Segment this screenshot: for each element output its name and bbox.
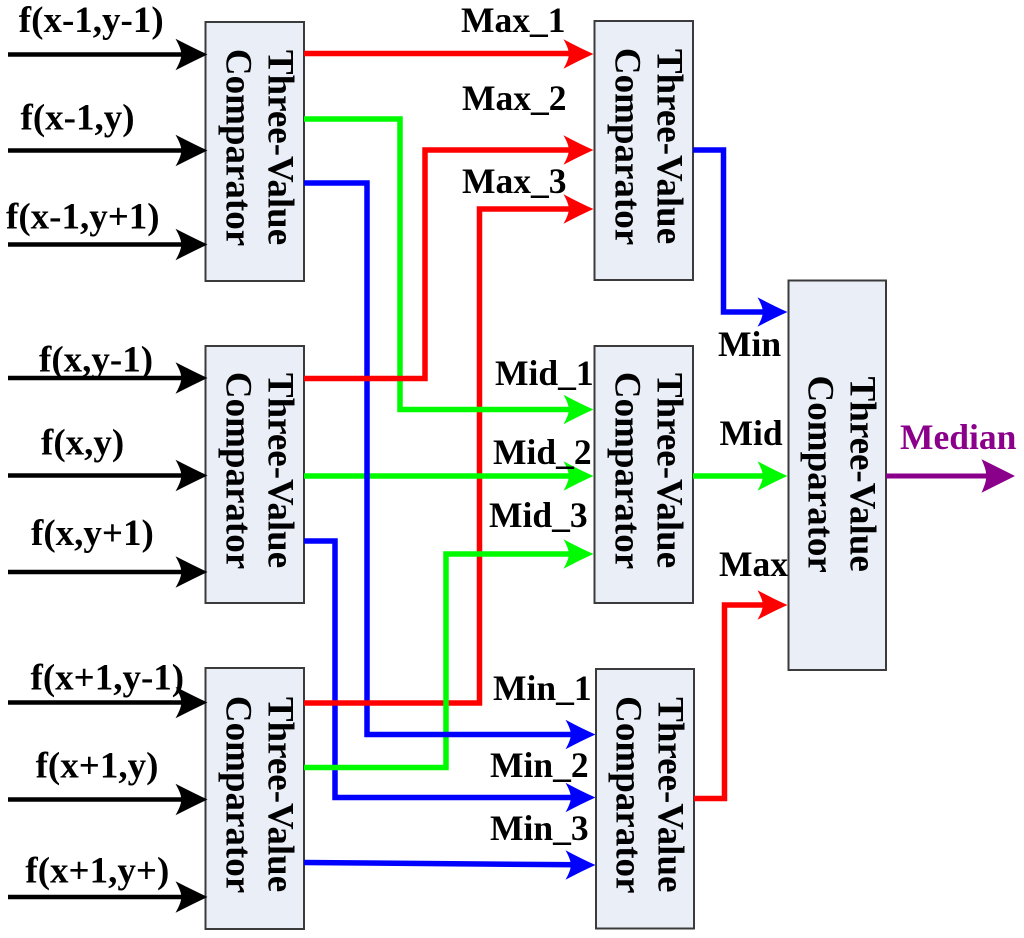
- svg-text:f(x+1,y-1): f(x+1,y-1): [31, 658, 185, 699]
- comparator U5 (center-middle Three-Value Comparator, mid stage): [595, 346, 694, 603]
- wire Mid_1 (green, U1 out2 to U5 in1): [304, 119, 594, 424]
- svg-text:Three-ValueComparator: Three-ValueComparator: [217, 372, 300, 569]
- comparator U6 (bottom-middle Three-Value Comparator, min stage): [596, 669, 694, 929]
- svg-text:Min: Min: [718, 324, 781, 364]
- svg-text:f(x,y): f(x,y): [41, 423, 124, 464]
- wire Min (blue, U4 out to U7 in1): [693, 150, 788, 327]
- svg-text:f(x-1,y+1): f(x-1,y+1): [6, 197, 160, 238]
- comparator U2 (middle-left Three-Value Comparator): [206, 346, 305, 603]
- svg-text:f(x-1,y-1): f(x-1,y-1): [19, 0, 164, 41]
- svg-text:Min_1: Min_1: [493, 668, 592, 708]
- comparator U4 (top-middle Three-Value Comparator, max stage): [595, 21, 694, 280]
- input arrow f(x-1,y-1): [8, 39, 208, 71]
- svg-text:Max_1: Max_1: [461, 0, 566, 40]
- wire Min_1 (blue, U1 out3): exit segment and vertical drop: [304, 183, 367, 737]
- svg-text:Max_2: Max_2: [462, 78, 567, 118]
- svg-text:Mid_2: Mid_2: [493, 432, 592, 472]
- svg-text:Three-ValueComparator: Three-ValueComparator: [606, 48, 689, 245]
- svg-text:Three-ValueComparator: Three-ValueComparator: [800, 376, 883, 573]
- svg-text:f(x+1,y+): f(x+1,y+): [25, 851, 169, 892]
- comparator U7 (output Three-Value Comparator): [789, 281, 887, 671]
- svg-text:Mid: Mid: [720, 413, 783, 453]
- svg-text:Mid_3: Mid_3: [489, 495, 588, 535]
- input arrow f(x,y): [8, 460, 208, 492]
- svg-text:f(x-1,y): f(x-1,y): [21, 98, 135, 139]
- wire Min_3 (blue, U3 out3 to U6 in3): [304, 850, 596, 880]
- input arrow f(x+1,y+): [8, 881, 208, 913]
- wire Median output (purple, U7 out): [886, 459, 1015, 492]
- input arrow f(x,y-1): [8, 362, 208, 394]
- svg-text:Max_3: Max_3: [462, 161, 567, 201]
- svg-text:Three-ValueComparator: Three-ValueComparator: [606, 372, 689, 569]
- comparator U1 (top-left Three-Value Comparator): [206, 22, 305, 281]
- wire Min_1 (blue, to U6 in1): horizontal run and arrow: [365, 720, 596, 750]
- svg-text:Min_2: Min_2: [490, 745, 589, 785]
- svg-text:Mid_1: Mid_1: [495, 353, 594, 393]
- input arrow f(x-1,y): [8, 135, 208, 167]
- svg-text:Max: Max: [719, 544, 788, 584]
- wire Max_1 (red, U1 out1 to U4 in1): [304, 39, 594, 69]
- svg-text:Three-ValueComparator: Three-ValueComparator: [608, 696, 691, 893]
- svg-text:Median: Median: [900, 417, 1017, 457]
- wire Min_2 (blue, U2 out3 to U6 in2): [304, 541, 596, 812]
- wire Max_3 (red, U3 out1): horizontal segment from U3: [304, 700, 482, 706]
- svg-text:Min_3: Min_3: [490, 808, 589, 848]
- svg-text:Three-ValueComparator: Three-ValueComparator: [217, 696, 300, 893]
- svg-text:f(x+1,y): f(x+1,y): [36, 746, 159, 787]
- svg-text:f(x,y+1): f(x,y+1): [31, 513, 154, 554]
- wire Mid_2 (green, U2 out2 to U5 in2): [304, 461, 594, 491]
- input arrow f(x+1,y): [8, 784, 208, 816]
- wire Max_2 (red, U2 out1 to U4 in2): [304, 135, 594, 378]
- svg-text:f(x,y-1): f(x,y-1): [39, 339, 153, 380]
- svg-text:Three-ValueComparator: Three-ValueComparator: [217, 49, 300, 246]
- input arrow f(x,y+1): [8, 556, 208, 588]
- input arrow f(x+1,y-1): [8, 687, 208, 719]
- wire Max_3 (red, U3 out1 to U4 in3): vertical riser and arrow into U4: [480, 194, 594, 705]
- wire Mid_3 (green, U3 out2 to U5 in3): [304, 539, 594, 767]
- wire Mid (green, U5 out to U7 in2): [693, 461, 788, 491]
- input arrow f(x-1,y+1): [8, 229, 208, 261]
- comparator U3 (bottom-left Three-Value Comparator): [206, 668, 305, 929]
- wire Max (red, U6 out to U7 in3): [694, 590, 788, 798]
